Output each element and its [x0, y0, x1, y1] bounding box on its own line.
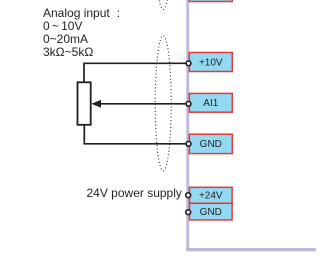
inverter panel edge bottom rail [186, 248, 316, 251]
pin circle +10V [186, 61, 191, 66]
pin circle GND (power) [186, 210, 191, 215]
terminal box (cut off at top) [189, 0, 232, 2]
shielded cable ellipse (cut off at top) [155, 0, 171, 10]
note: 24V power supply annotation [87, 187, 182, 199]
wire pot bottom to GND [84, 125, 186, 144]
svg-text:AI1: AI1 [203, 98, 218, 109]
shielded cable ellipse [155, 36, 171, 171]
svg-text:+24V: +24V [199, 191, 223, 202]
potentiometer RP [78, 82, 91, 125]
terminal +10V [189, 53, 232, 72]
svg-text:GND: GND [200, 207, 222, 218]
wire pot top to +10V [84, 63, 186, 82]
pin circle GND [186, 141, 191, 146]
pin circle AI1 [186, 101, 191, 106]
terminal +24V [190, 187, 233, 203]
svg-text:GND: GND [200, 139, 222, 150]
terminal GND (power) [190, 203, 233, 220]
svg-text:+10V: +10V [199, 57, 223, 68]
terminal GND [189, 134, 232, 153]
wiper arrowhead [91, 100, 101, 108]
wire wiper to AI1 [100, 103, 186, 105]
terminal AI1 [189, 93, 232, 112]
note: analog input annotation [43, 7, 120, 59]
inverter panel edge vertical rail [186, 0, 189, 251]
pin circle +24V [186, 193, 191, 198]
